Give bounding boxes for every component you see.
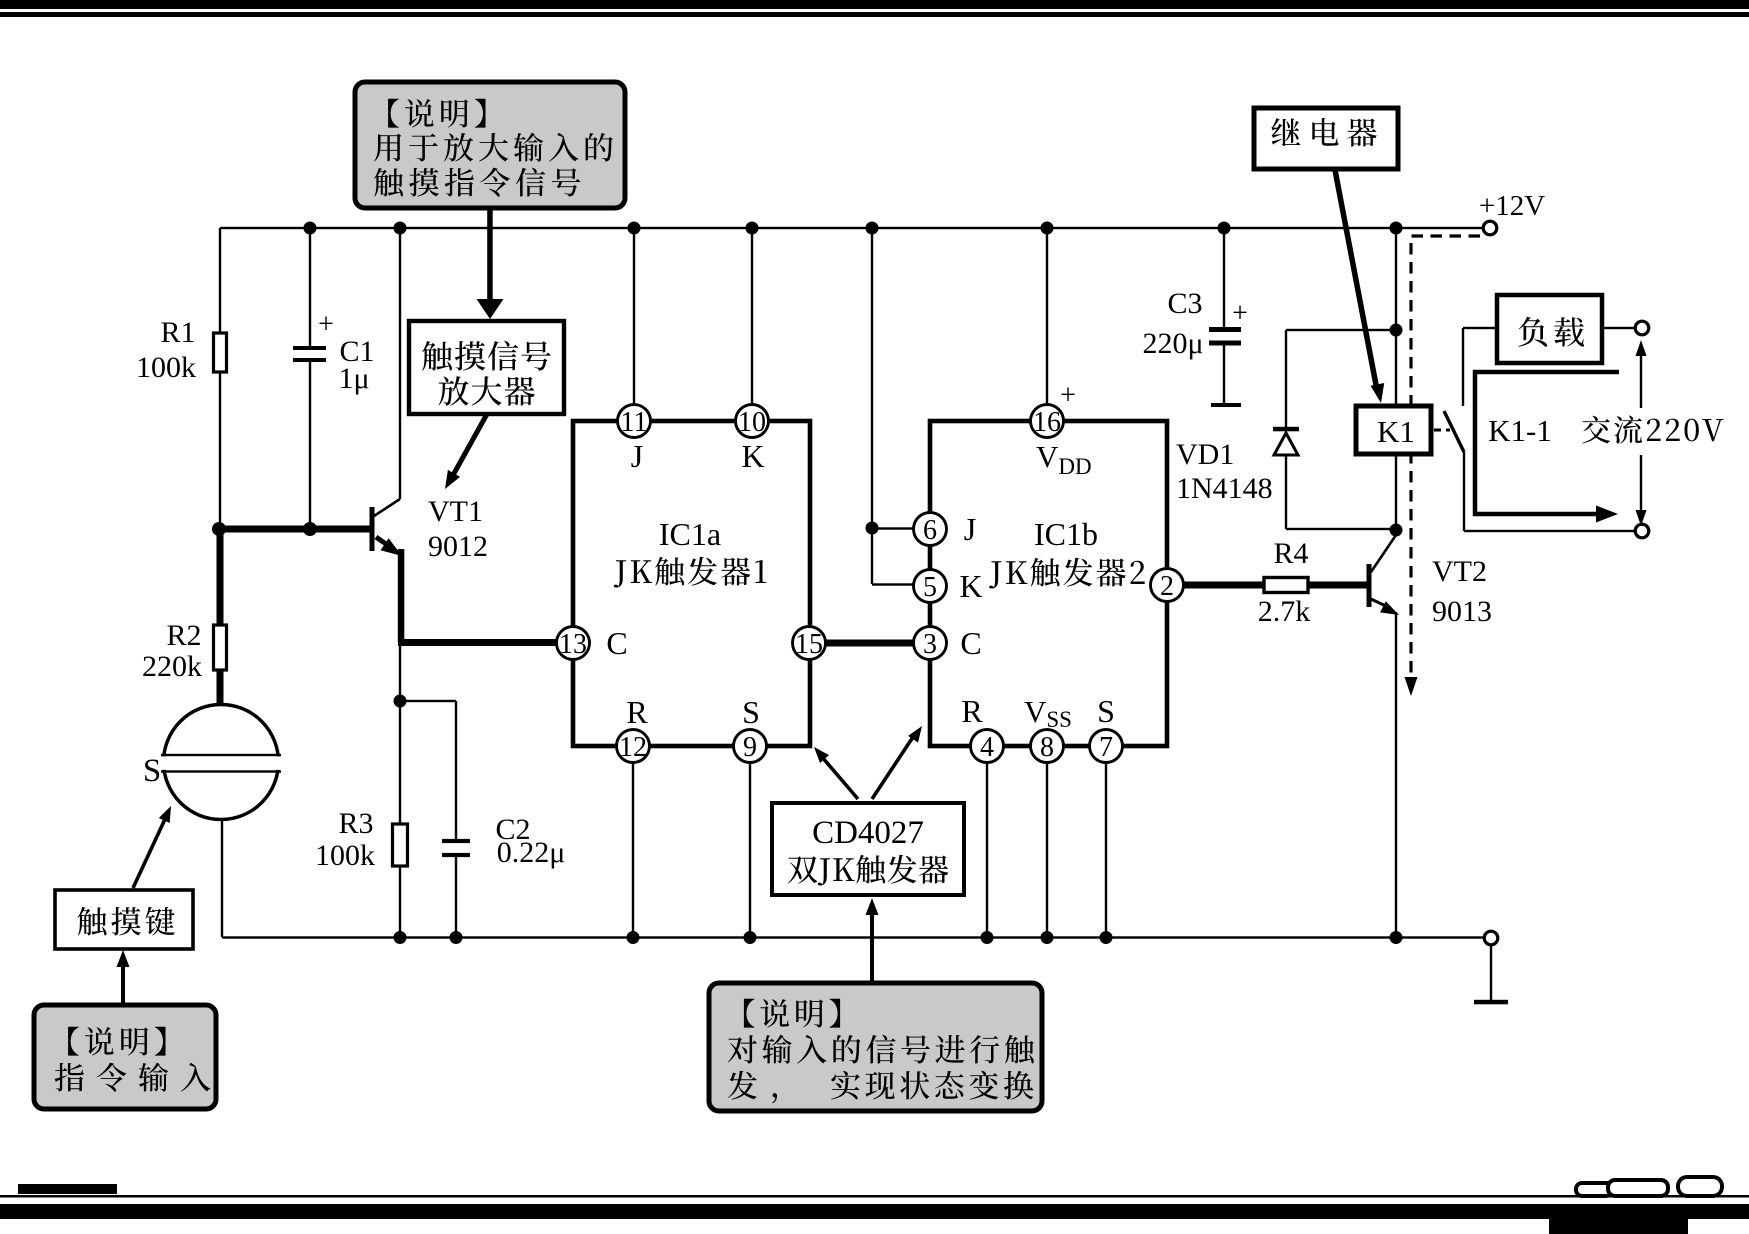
pin 4 xyxy=(971,730,1004,763)
svg-text:7: 7 xyxy=(1099,732,1113,763)
wire VD1 cathode lead xyxy=(1285,455,1287,529)
wire pin 16 to rail xyxy=(1046,228,1048,421)
wire K1 coil top xyxy=(1395,228,1397,406)
resistor R4 xyxy=(1264,578,1308,593)
svg-text:8: 8 xyxy=(1040,732,1054,763)
svg-text:220k: 220k xyxy=(142,650,202,683)
resistor R2 xyxy=(217,529,224,625)
wire pin 11 to rail xyxy=(633,228,635,421)
svg-text:1μ: 1μ xyxy=(338,362,369,395)
svg-text:6: 6 xyxy=(923,515,937,546)
wire VT1 collector down xyxy=(398,549,405,642)
wire pin 7 to ground rail xyxy=(1105,746,1107,937)
svg-text:+: + xyxy=(318,309,334,340)
note box CD4027 xyxy=(772,803,964,895)
pin 7 xyxy=(1090,730,1123,763)
resistor R1 xyxy=(214,333,227,372)
terminal upper AC xyxy=(1635,321,1649,335)
capacitor C2 (0.22u) xyxy=(442,839,470,843)
wire pin 2 to R4 to VT2 base xyxy=(1167,582,1367,589)
wire load box right to terminal xyxy=(1602,327,1635,329)
ground xyxy=(1490,945,1492,1000)
svg-text:K1: K1 xyxy=(1377,414,1415,449)
pin 13 xyxy=(557,627,590,660)
wire C3 bottom lead xyxy=(1223,345,1225,403)
wire J-K branch from rail xyxy=(871,228,873,528)
pin 6 xyxy=(914,513,947,546)
wire +12V top supply rail xyxy=(220,227,1484,229)
svg-text:C3: C3 xyxy=(1167,287,1202,320)
note box 继电器 xyxy=(1254,108,1398,169)
arrow note to CD4027 xyxy=(870,908,874,983)
wire VD1 anode lead xyxy=(1285,330,1287,428)
wire pin 4 to ground rail xyxy=(986,746,988,937)
wire K1 coil bottom xyxy=(1395,454,1397,529)
AC current path thick bar xyxy=(1475,372,1619,514)
pin 2 xyxy=(1151,569,1184,602)
svg-text:9012: 9012 xyxy=(428,530,488,563)
amplifier block 触摸信号放大器 xyxy=(409,321,564,414)
arrow note to touch key xyxy=(121,960,125,1003)
wire VT2 emitter down to ground rail xyxy=(1395,612,1397,937)
wire R3 top lead xyxy=(399,701,401,824)
note box 说明/input (gray) xyxy=(34,1005,216,1109)
svg-text:2: 2 xyxy=(1160,571,1174,602)
svg-text:R2: R2 xyxy=(166,619,201,652)
transistor VT2 9013 xyxy=(1367,564,1372,607)
svg-text:C: C xyxy=(960,625,981,661)
junction dot R3 node xyxy=(394,695,407,708)
pin 12 xyxy=(617,730,650,763)
wire branch down to pin 5 xyxy=(871,528,873,584)
relay coil K1 xyxy=(1356,406,1431,454)
wire left rail down to R1 xyxy=(219,228,221,333)
svg-text:IC1a: IC1a xyxy=(659,516,721,552)
svg-text:12: 12 xyxy=(619,732,647,763)
svg-text:0.22μ: 0.22μ xyxy=(497,836,566,869)
relay contact K1-1 blade xyxy=(1444,411,1464,452)
wire ground rail bottom xyxy=(222,936,1484,938)
svg-text:R3: R3 xyxy=(338,807,373,840)
wire switch upper lead xyxy=(1462,328,1464,406)
relay contact K1-1 linkage xyxy=(1434,429,1450,432)
IC block IC1a JK flip-flop 1 xyxy=(573,421,810,746)
wire branch to pin 5 xyxy=(872,583,930,585)
svg-text:R1: R1 xyxy=(160,316,195,349)
svg-text:1N4148: 1N4148 xyxy=(1176,472,1273,505)
wire C1 top lead xyxy=(309,228,311,346)
svg-text:S: S xyxy=(1097,693,1115,729)
arrow relay note to K1 xyxy=(1335,170,1377,390)
wire R3 node to C2 xyxy=(400,700,456,702)
pin 10 xyxy=(736,405,769,438)
arrow touch key to S xyxy=(133,817,166,888)
wire VD1 top branch xyxy=(1286,329,1396,331)
svg-text:10: 10 xyxy=(738,407,766,438)
svg-text:S: S xyxy=(742,694,760,730)
wire VD1 bottom branch xyxy=(1286,528,1396,530)
terminal +12V xyxy=(1483,221,1497,235)
svg-text:220μ: 220μ xyxy=(1142,327,1203,360)
svg-text:R: R xyxy=(961,693,983,729)
svg-text:K: K xyxy=(959,568,982,604)
IC block IC1b JK flip-flop 2 xyxy=(930,421,1167,746)
AC 220V dimension arrow down xyxy=(1640,455,1642,520)
svg-text:15: 15 xyxy=(795,629,823,660)
capacitor C3 (electrolytic 220u) xyxy=(1209,327,1241,332)
wire C1 bottom lead xyxy=(309,362,311,529)
wire pin 15 to pin 3 clock line xyxy=(809,640,930,647)
svg-text:13: 13 xyxy=(559,629,587,660)
wire bottom contact line to terminal xyxy=(1464,530,1635,532)
svg-text:11: 11 xyxy=(621,407,648,438)
svg-text:+: + xyxy=(1060,380,1076,411)
svg-text:J: J xyxy=(964,511,976,547)
wire R3 bottom lead xyxy=(399,866,401,937)
svg-text:CD4027: CD4027 xyxy=(812,815,924,851)
svg-text:IC1b: IC1b xyxy=(1034,516,1098,552)
pin 11 xyxy=(618,405,651,438)
svg-text:5: 5 xyxy=(923,572,937,603)
wire load box left xyxy=(1463,327,1497,329)
svg-text:+: + xyxy=(1232,298,1248,329)
touch plate S (sensor disc) xyxy=(164,705,279,820)
load box 负载 xyxy=(1497,295,1602,363)
note box 说明/amplify (gray) xyxy=(355,82,625,208)
pin 15 xyxy=(793,627,826,660)
wire pin 8 to ground rail xyxy=(1046,746,1048,937)
svg-text:100k: 100k xyxy=(315,839,375,872)
svg-text:VT1: VT1 xyxy=(428,495,483,528)
page frame top bars xyxy=(0,0,1749,9)
capacitor C1 (electrolytic, 1u) xyxy=(293,346,326,350)
svg-text:K: K xyxy=(741,438,764,474)
AC 220V dimension arrow up xyxy=(1640,346,1642,408)
terminal lower AC xyxy=(1635,524,1649,538)
junction dot VT1 base node xyxy=(212,522,226,536)
wire VT1 collector to pin 13 xyxy=(398,639,573,646)
svg-text:R: R xyxy=(626,694,648,730)
junction dot VD1 bottom at VT2 collector xyxy=(1390,524,1403,537)
svg-text:9: 9 xyxy=(743,732,757,763)
wire VT1 emitter to rail xyxy=(399,228,401,499)
arrow amplifier to VT1 xyxy=(452,414,487,477)
wire pin 12 to ground rail xyxy=(632,746,634,937)
junction dots on +12V rail xyxy=(304,222,317,235)
wire S plate bottom lead xyxy=(221,821,223,937)
junction dot J-K branch xyxy=(866,522,879,535)
svg-text:C: C xyxy=(606,625,627,661)
svg-text:3: 3 xyxy=(923,629,937,660)
svg-text:J: J xyxy=(631,438,643,474)
wire branch to pin 6 xyxy=(872,527,930,529)
wire R1 to base node xyxy=(219,372,221,529)
wire pin 10 to rail xyxy=(751,228,753,421)
arrow note to amplifier box xyxy=(487,208,493,300)
resistor R3 xyxy=(393,824,408,866)
svg-text:+12V: +12V xyxy=(1479,190,1545,222)
touch key box 触摸键 xyxy=(55,890,193,949)
wire VT1 base node xyxy=(219,526,371,533)
svg-text:K1-1: K1-1 xyxy=(1488,413,1552,448)
note box 说明/trigger (gray) xyxy=(709,983,1042,1111)
pin 9 xyxy=(734,730,767,763)
pin 3 xyxy=(914,627,947,660)
dashed current path from +12V through relay xyxy=(1411,236,1480,676)
decoration clipart capsules bottom right xyxy=(1576,1177,1722,1196)
svg-text:2.7k: 2.7k xyxy=(1258,595,1311,628)
pin 16 xyxy=(1031,405,1064,438)
transistor VT1 9012 xyxy=(370,507,375,551)
junction dots on ground rail xyxy=(394,931,407,944)
svg-text:VT2: VT2 xyxy=(1432,555,1487,588)
pin 8 xyxy=(1031,730,1064,763)
junction dot VD1 top xyxy=(1390,324,1403,337)
terminal ground xyxy=(1484,931,1498,945)
wire C3 top lead xyxy=(1223,228,1225,327)
svg-text:R4: R4 xyxy=(1273,537,1308,570)
svg-text:4: 4 xyxy=(980,732,994,763)
wire pin 9 to ground rail xyxy=(749,746,751,937)
junction dot C1 at base node xyxy=(303,522,317,536)
arrow CD4027 to IC1b xyxy=(872,737,913,799)
diode VD1 1N4148 xyxy=(1273,427,1299,432)
svg-text:S: S xyxy=(143,753,161,789)
wire switch lower lead xyxy=(1463,452,1465,531)
svg-text:9013: 9013 xyxy=(1432,595,1492,628)
wire C2 top lead xyxy=(455,701,457,839)
svg-text:16: 16 xyxy=(1033,407,1061,438)
arrow CD4027 to IC1a xyxy=(822,757,858,799)
wire C2 bottom lead xyxy=(455,857,457,937)
page frame bottom bars xyxy=(18,1184,117,1194)
pin 5 xyxy=(914,570,947,603)
svg-text:100k: 100k xyxy=(136,351,196,384)
svg-text:VD1: VD1 xyxy=(1176,438,1234,471)
wire collector to R3 node xyxy=(399,642,401,701)
label 交流220V xyxy=(1582,416,1723,444)
